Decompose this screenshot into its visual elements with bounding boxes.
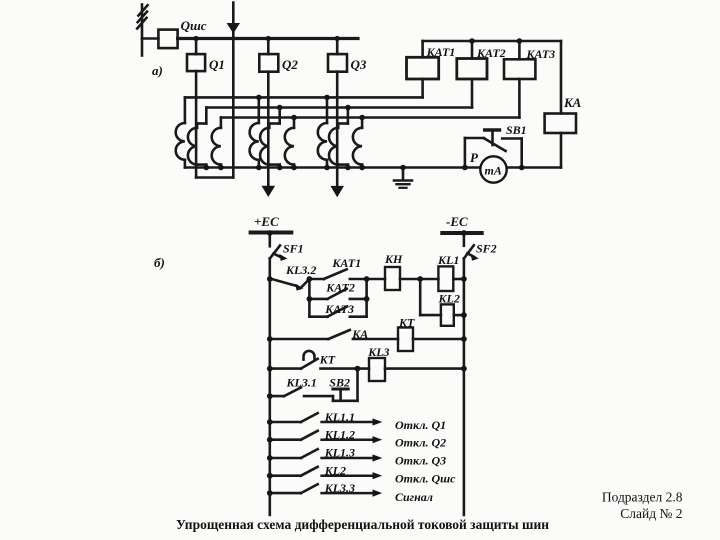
svg-text:Слайд № 2: Слайд № 2 (620, 506, 682, 521)
svg-text:Упрощенная схема дифференциаль: Упрощенная схема дифференциальной токово… (176, 517, 549, 532)
svg-text:KAT2: KAT2 (325, 281, 355, 295)
svg-text:KT: KT (319, 353, 336, 367)
svg-text:а): а) (152, 63, 163, 78)
svg-text:KH: KH (384, 252, 403, 266)
svg-text:KT: KT (398, 316, 415, 330)
svg-text:SF1: SF1 (283, 242, 304, 256)
svg-text:SB1: SB1 (506, 123, 527, 137)
svg-text:Откл. Q2: Откл. Q2 (395, 436, 446, 450)
svg-text:б): б) (154, 255, 165, 270)
svg-text:KL3.3: KL3.3 (324, 481, 355, 495)
svg-text:KAT1: KAT1 (426, 45, 456, 59)
svg-text:KL2: KL2 (438, 292, 460, 306)
svg-text:SF2: SF2 (476, 242, 497, 256)
svg-text:KAT1: KAT1 (331, 256, 361, 270)
svg-text:-ЕС: -ЕС (446, 214, 468, 229)
svg-text:KL1: KL1 (437, 253, 459, 267)
svg-text:Откл. Q1: Откл. Q1 (395, 418, 446, 432)
svg-text:KL3.2: KL3.2 (285, 263, 316, 277)
svg-text:KAT3: KAT3 (526, 47, 556, 61)
svg-text:KAT2: KAT2 (476, 46, 506, 60)
svg-text:KL2: KL2 (324, 464, 346, 478)
svg-text:KAT3: KAT3 (324, 302, 354, 316)
svg-text:KL1.3: KL1.3 (324, 445, 355, 459)
svg-text:KL3.1: KL3.1 (286, 376, 317, 390)
svg-text:KL1.2: KL1.2 (324, 428, 355, 442)
svg-text:Откл. Qшс: Откл. Qшс (395, 471, 456, 485)
svg-text:SB2: SB2 (329, 376, 350, 390)
svg-text:KA: KA (563, 95, 582, 110)
svg-text:KL3: KL3 (367, 345, 389, 359)
svg-text:Сигнал: Сигнал (395, 490, 433, 504)
svg-text:mA: mA (485, 164, 502, 178)
svg-text:Подраздел 2.8: Подраздел 2.8 (602, 490, 683, 505)
svg-text:Q2: Q2 (282, 57, 298, 72)
svg-text:P: P (470, 150, 479, 165)
svg-text:Q3: Q3 (351, 57, 367, 72)
svg-text:Q1: Q1 (209, 57, 225, 72)
svg-text:Откл. Q3: Откл. Q3 (395, 454, 446, 468)
svg-text:KA: KA (351, 327, 368, 341)
svg-text:KL1.1: KL1.1 (324, 410, 355, 424)
svg-text:+ЕС: +ЕС (254, 214, 279, 229)
svg-text:Qшс: Qшс (181, 18, 207, 33)
